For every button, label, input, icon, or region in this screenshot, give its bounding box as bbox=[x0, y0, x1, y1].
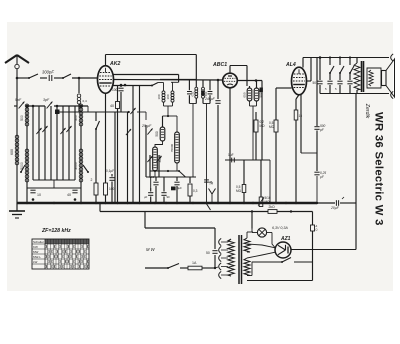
wire AK2 cathode bbox=[105, 93, 107, 183]
svg-text:MΩ: MΩ bbox=[269, 125, 275, 129]
node anode 2 bbox=[124, 84, 127, 87]
switch wave left bbox=[20, 165, 25, 173]
wire speaker bottom bbox=[320, 93, 389, 95]
wire y112 link bbox=[60, 112, 147, 120]
svg-text:6,3V 0,3A: 6,3V 0,3A bbox=[272, 226, 288, 230]
wire column x317 bbox=[314, 58, 319, 172]
switch antenna 2 bbox=[62, 74, 71, 79]
tone switch 1 bbox=[325, 58, 334, 94]
resistor 0,5 MOhm bbox=[236, 160, 246, 203]
node antenna coupling bbox=[78, 77, 81, 80]
capacitor 300pF bbox=[49, 75, 52, 81]
resistor bias x96 bbox=[91, 178, 99, 203]
mains wire bbox=[145, 267, 216, 269]
wire AK2 anode local bbox=[114, 83, 164, 92]
capacitor 0,25uF bbox=[314, 171, 326, 203]
bandswitch columns bbox=[33, 106, 75, 180]
svg-text:10: 10 bbox=[37, 193, 41, 197]
IF1 bottoms bbox=[164, 102, 173, 116]
output transformer core bbox=[362, 61, 364, 92]
wire lamp feed bbox=[251, 210, 253, 228]
terminal TA fork bbox=[209, 189, 216, 204]
IF2 tank B bbox=[202, 80, 213, 204]
output transformer primary bbox=[354, 58, 360, 94]
rail 3 y228 bbox=[145, 212, 215, 229]
svg-text:MΩ: MΩ bbox=[236, 189, 242, 193]
svg-text:300: 300 bbox=[74, 115, 78, 121]
wire tuner top y=106 bbox=[14, 105, 88, 108]
wire bottom link y188 bbox=[27, 180, 81, 188]
wire heater loop bbox=[247, 275, 252, 277]
svg-text:70000: 70000 bbox=[170, 143, 174, 152]
oscillator coil 500 bbox=[155, 116, 165, 147]
capacitor det blk bbox=[260, 88, 263, 93]
wire osc top y79 bbox=[160, 79, 196, 81]
trimmer 25uF bbox=[147, 128, 152, 134]
terminal speaker bottom bbox=[391, 91, 394, 98]
svg-text:100: 100 bbox=[112, 88, 118, 92]
pilot lamp bbox=[252, 228, 275, 248]
wire antenna to AK2 bbox=[17, 77, 98, 79]
svg-text:100: 100 bbox=[157, 94, 161, 99]
capacitor 1uF bbox=[228, 153, 234, 162]
padder block bbox=[55, 110, 60, 115]
svg-text:25 µF: 25 µF bbox=[141, 124, 152, 128]
svg-text:1µF: 1µF bbox=[228, 153, 234, 157]
mains bottom link bbox=[215, 267, 218, 268]
svg-text:3pF: 3pF bbox=[43, 98, 50, 102]
svg-text:AL4: AL4 bbox=[285, 62, 296, 68]
potentiometer 5/10 MOhm bbox=[258, 160, 271, 207]
capacitor 50 mains bbox=[206, 228, 218, 269]
wire ag line y160 bbox=[225, 160, 270, 203]
trimmer 3pF bbox=[43, 98, 52, 108]
node top rail 1 bbox=[319, 56, 322, 59]
wire AZ1 filament bbox=[247, 244, 275, 258]
antenna bbox=[5, 55, 29, 79]
trimmer bank b bbox=[60, 126, 71, 134]
bus junction dots bbox=[26, 202, 318, 204]
switch x96 bbox=[95, 121, 100, 130]
svg-text:15: 15 bbox=[299, 114, 303, 118]
wire column x81 bbox=[80, 106, 82, 203]
power box bbox=[247, 258, 313, 281]
wire link al4 bbox=[301, 152, 317, 154]
capacitor 25 tankB bbox=[204, 180, 213, 184]
wire column x96 bbox=[95, 112, 97, 183]
IF2 tank A bbox=[187, 80, 198, 178]
svg-text:40: 40 bbox=[67, 193, 71, 197]
fuse 1A bbox=[188, 261, 202, 270]
svg-text:600: 600 bbox=[10, 149, 14, 155]
svg-text:AZ1: AZ1 bbox=[280, 236, 291, 242]
wire AL4 grid bbox=[276, 88, 292, 120]
capacitor 50 top bbox=[313, 58, 323, 94]
wire ABC1 cathode bbox=[229, 88, 231, 203]
wire AK2 anode upper bbox=[114, 75, 179, 92]
coil 3000 left bbox=[74, 149, 83, 182]
wire ABC1 out bbox=[237, 79, 262, 160]
svg-text:100: 100 bbox=[150, 175, 155, 179]
capacitor 100pF AK2 bbox=[112, 85, 124, 112]
ground symbol bbox=[9, 203, 25, 218]
resistor cathode 100 bbox=[104, 183, 115, 203]
IF1 secondary coil bbox=[166, 91, 174, 102]
svg-text:Ω: Ω bbox=[316, 228, 318, 232]
capacitor black osc bbox=[171, 187, 176, 191]
capacitor 20uF bus bbox=[330, 197, 344, 210]
svg-text:2: 2 bbox=[91, 178, 93, 182]
rail 2 y211.5 bbox=[100, 203, 313, 213]
coil 600 bbox=[10, 135, 19, 165]
svg-text:240µF: 240µF bbox=[204, 97, 216, 101]
wave switch table bbox=[32, 239, 89, 269]
svg-text:M W: M W bbox=[146, 247, 156, 252]
transformer terminals bbox=[219, 238, 228, 278]
svg-text:100: 100 bbox=[166, 94, 170, 99]
wire column x115 bbox=[114, 112, 116, 203]
svg-text:4µF: 4µF bbox=[177, 186, 182, 190]
wire column x139.5 bbox=[139, 85, 141, 203]
resistor 0,2 MOhm bbox=[254, 112, 265, 160]
switch antenna 1 bbox=[28, 74, 38, 79]
trimmer 5pF bbox=[15, 98, 24, 108]
svg-text:AK2: AK2 bbox=[109, 61, 120, 67]
svg-text:500: 500 bbox=[20, 115, 24, 121]
wire AL4 screen drop bbox=[300, 94, 302, 153]
resistor 2kOhm bbox=[268, 205, 277, 213]
svg-text:KW: KW bbox=[33, 245, 38, 249]
switch anode bbox=[151, 83, 158, 87]
trimmer line y112 bbox=[128, 108, 136, 114]
wire grid line AK2-ABC1 bbox=[114, 79, 224, 82]
svg-text:WR 36 Selectric W 3: WR 36 Selectric W 3 bbox=[373, 112, 385, 226]
tube AK2 bbox=[98, 66, 114, 94]
wire right column x356 bbox=[355, 94, 357, 250]
trimmer osc a bbox=[147, 155, 152, 177]
switch wave right bbox=[83, 165, 89, 173]
svg-text:500: 500 bbox=[155, 131, 159, 137]
capacitor 10 bbox=[30, 190, 41, 201]
wire AL4 cathode bbox=[294, 95, 302, 203]
tube AL4 bbox=[292, 67, 307, 95]
svg-text:50: 50 bbox=[206, 251, 210, 255]
node anode 1 bbox=[120, 84, 123, 87]
wire pad y171 bbox=[150, 170, 179, 172]
speaker bbox=[382, 59, 395, 97]
speaker field box bbox=[367, 68, 381, 88]
wire ABC1 top loop bbox=[230, 66, 247, 87]
ground bus bbox=[17, 202, 317, 204]
svg-text:2kΩ: 2kΩ bbox=[269, 205, 276, 209]
IF3 coil a bbox=[243, 86, 252, 101]
wire AZ1 output bbox=[291, 249, 356, 251]
coil 5000 left bbox=[20, 149, 29, 182]
svg-text:ABC1: ABC1 bbox=[212, 62, 227, 68]
IF3 coil b bbox=[254, 81, 262, 102]
wire column x146 bbox=[145, 125, 147, 177]
trimmer bank a bbox=[36, 126, 47, 134]
svg-text:5pF: 5pF bbox=[15, 98, 22, 102]
trimmer osc b bbox=[156, 155, 161, 177]
wire column x133 bbox=[132, 85, 134, 203]
capacitor 0,1uF bbox=[106, 169, 115, 203]
transformer secondary HT bbox=[244, 232, 253, 252]
svg-text:Δ: Δ bbox=[316, 224, 318, 228]
switch bus bbox=[205, 202, 211, 210]
padding caps row bbox=[144, 175, 180, 203]
choke 0,4 drop bbox=[77, 78, 87, 112]
svg-text:500: 500 bbox=[204, 91, 208, 96]
IF1 primary coil bbox=[157, 91, 165, 102]
coil 500 left bbox=[20, 104, 29, 126]
bus thin extension bbox=[317, 202, 356, 204]
resistor 40 screen bbox=[110, 85, 120, 203]
wire y116 link bbox=[163, 115, 178, 117]
coil 300 left bbox=[74, 104, 83, 126]
wire IF3 bottoms bbox=[250, 101, 257, 160]
tone switch 3 bbox=[347, 58, 354, 94]
capacitor 240uF bbox=[204, 79, 221, 203]
switch mid bbox=[178, 170, 186, 177]
svg-text:0,1µF: 0,1µF bbox=[106, 169, 114, 173]
svg-text:Schalter: Schalter bbox=[33, 240, 44, 244]
svg-text:Zerdik: Zerdik bbox=[364, 103, 370, 119]
svg-text:MW-L: MW-L bbox=[33, 255, 41, 259]
resistor 0,3 bbox=[188, 177, 198, 203]
svg-text:3000: 3000 bbox=[74, 162, 78, 170]
svg-text:90: 90 bbox=[167, 195, 171, 199]
tube AZ1 bbox=[275, 242, 291, 258]
wire AL4 top bbox=[303, 58, 389, 68]
svg-text:µF: µF bbox=[144, 195, 148, 199]
svg-text:LW: LW bbox=[33, 260, 37, 264]
svg-text:1A: 1A bbox=[192, 261, 197, 265]
oscillator coil 70000 bbox=[170, 116, 179, 171]
transformer core bbox=[239, 235, 242, 284]
capacitor det black bbox=[201, 91, 204, 95]
column x127.5 trimmer bbox=[126, 112, 131, 203]
svg-text:050: 050 bbox=[243, 92, 247, 97]
svg-text:500: 500 bbox=[259, 92, 263, 97]
transformer primary bbox=[228, 239, 234, 276]
resistor grid AL4 bbox=[269, 120, 278, 203]
wire osc bottom y177 bbox=[146, 177, 196, 188]
mains switch bbox=[167, 264, 179, 270]
svg-text:0,4: 0,4 bbox=[83, 99, 88, 103]
svg-text:MΩ: MΩ bbox=[260, 124, 266, 128]
power box right column bbox=[311, 212, 318, 281]
svg-text:50: 50 bbox=[313, 81, 317, 85]
scan page area bbox=[7, 22, 393, 291]
svg-text:40: 40 bbox=[110, 104, 114, 108]
svg-text:300pF: 300pF bbox=[42, 70, 54, 75]
wire AL4 anode bbox=[307, 58, 312, 82]
terminal speaker top bbox=[391, 54, 394, 61]
transformer secondary heater bbox=[244, 258, 250, 276]
oscillator coil 3000 bbox=[153, 147, 162, 177]
svg-text:ZF=128 kHz: ZF=128 kHz bbox=[41, 228, 71, 234]
svg-text:20µF: 20µF bbox=[330, 206, 340, 210]
svg-text:0,3: 0,3 bbox=[193, 189, 198, 193]
wire column x27 bbox=[26, 106, 28, 203]
svg-text:032: 032 bbox=[190, 91, 194, 96]
tube ABC1 bbox=[223, 73, 238, 88]
wire antenna column bbox=[16, 78, 18, 203]
wire AK2 plate top bbox=[106, 55, 197, 80]
svg-text:MW: MW bbox=[33, 250, 38, 254]
tone switch 2 bbox=[335, 58, 344, 94]
capacitor 40 bbox=[67, 190, 78, 201]
